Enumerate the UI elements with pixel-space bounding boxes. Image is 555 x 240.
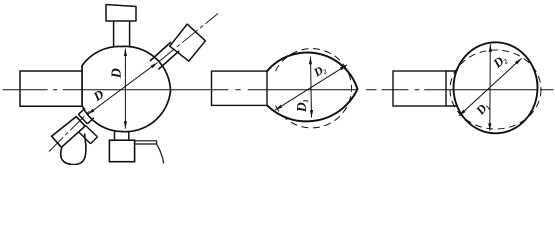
label D (vertical, left figure) [112,68,121,78]
middle dashed circle [276,49,352,128]
top stem [114,21,130,48]
label D2 (middle) [313,65,327,79]
diagonal centerline through 45-degree stems [49,14,218,152]
right pipe edge extensions [446,71,457,106]
left inlet pipe [20,71,82,106]
bottom stem [115,131,129,141]
bottom handle bar [135,141,157,144]
label D (diagonal, left figure) [92,90,104,102]
right inlet pipe [393,71,446,106]
label D2 (right) [492,54,508,70]
dimension line D1 (middle, vertical) [311,57,312,118]
right sphere (solid circle) [454,42,538,133]
middle lens body (pointed oval) [267,52,358,121]
top cap [106,5,136,22]
bottom flange block [109,140,134,162]
dimension line D2 (middle, diagonal) [275,65,347,110]
handle curve [157,144,164,163]
vertical dimension line D (left) [124,49,126,129]
lower-left cap box [52,117,86,148]
vertical dimension line (right) [489,44,492,131]
middle inlet pipe [212,71,268,105]
horizontal centerline (common axis) [3,89,554,91]
diagonal dimension line D1-D2 (right) [459,58,522,116]
label D1 (right) [475,102,490,117]
diagonal dimension line D (left) [88,63,158,115]
lower-left cover blob [61,134,86,165]
upper-right stem [150,42,179,69]
label D1 (middle) [297,100,308,112]
lower-left side box [79,126,98,144]
upper-right cap [170,24,206,61]
lower-left collar line [78,114,87,124]
left valve body (flattened circle outline) [82,46,170,131]
right dashed circle [450,50,541,129]
lower-left stem [78,108,94,124]
